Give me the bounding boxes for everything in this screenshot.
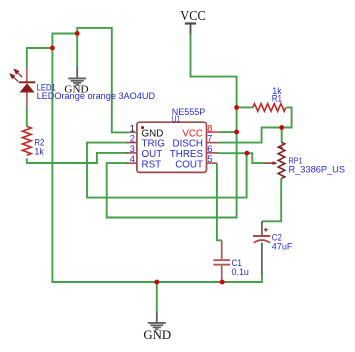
svg-text:1k: 1k — [34, 147, 44, 157]
svg-text:0.1u: 0.1u — [232, 267, 249, 277]
svg-text:R_3386P_US: R_3386P_US — [289, 164, 346, 174]
svg-text:8: 8 — [207, 123, 212, 133]
svg-text:4: 4 — [130, 154, 135, 164]
svg-text:RST: RST — [142, 159, 162, 170]
svg-text:VCC: VCC — [180, 8, 206, 23]
svg-text:U1: U1 — [172, 114, 180, 125]
svg-text:6: 6 — [207, 144, 212, 154]
svg-text:3: 3 — [130, 144, 135, 154]
svg-text:2: 2 — [130, 134, 135, 144]
svg-text:R1: R1 — [272, 93, 282, 103]
svg-text:7: 7 — [207, 134, 212, 144]
svg-text:LEDOrange orange 3AO4UD: LEDOrange orange 3AO4UD — [37, 91, 156, 101]
svg-text:GND: GND — [64, 83, 88, 95]
svg-text:GND: GND — [143, 328, 171, 342]
svg-text:5: 5 — [207, 154, 212, 164]
svg-text:47uF: 47uF — [272, 242, 293, 252]
svg-text:1: 1 — [130, 123, 135, 133]
svg-text:COUT: COUT — [175, 159, 203, 170]
